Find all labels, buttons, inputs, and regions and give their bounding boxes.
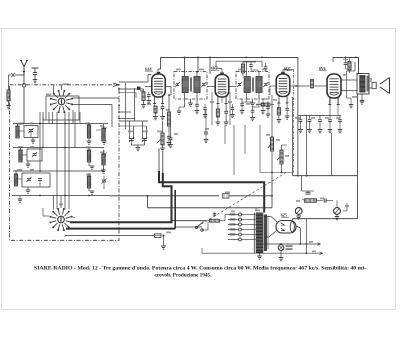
ground padders (136, 148, 141, 151)
wire mains bold C (70, 221, 208, 223)
wire S2 risers (54, 196, 66, 210)
resistor R3 grid leak (141, 89, 146, 108)
capacitor C24 (203, 104, 208, 118)
svg-text:6K7: 6K7 (211, 67, 218, 71)
wire screen rail (216, 61, 262, 72)
resistor R9 diode load (256, 103, 274, 106)
capacitor C12 (250, 107, 255, 121)
potentiometer RF gain (157, 121, 165, 151)
wire osc feed verticals (118, 83, 140, 129)
capacitor C9 (249, 62, 253, 70)
capacitor C25 (230, 104, 235, 118)
wire IF1 pri down (177, 99, 185, 114)
resistor R8 V3 cathode (277, 103, 282, 123)
wire S2 links (43, 208, 75, 218)
coil L2 antenna (19, 148, 22, 162)
wire mains bold A (159, 149, 264, 213)
svg-text:6Z5: 6Z5 (281, 214, 287, 218)
wire AVC links (243, 62, 258, 72)
coil L8 oscillator (101, 150, 106, 173)
IF1 trimmer right (201, 82, 206, 87)
capacitor C19 tone (204, 110, 209, 143)
resistor R7 AVC (241, 61, 244, 76)
ground L6 (89, 188, 94, 194)
label 6Z5 (281, 214, 289, 218)
label 6Q7 (284, 67, 292, 71)
padder capacitor P1 (129, 121, 134, 145)
trimmer C-L1 (18, 126, 39, 138)
wire rectifier leads (264, 217, 306, 254)
capacitor C26 (266, 101, 271, 117)
component dial lamp small (223, 194, 230, 199)
capacitor C5 (147, 92, 152, 104)
tube V5 rectifier 6Z5 (276, 221, 296, 234)
capacitor C6 cathode (160, 105, 165, 120)
spark-gap arrester (9, 73, 19, 77)
label 6A8 (145, 67, 153, 71)
trimmer C-L4 (96, 126, 107, 138)
wire mains bold B2 (174, 190, 176, 229)
pilot lamp (278, 243, 292, 261)
trimmer C-L6 (101, 176, 106, 189)
IF1 ground (188, 99, 193, 106)
wire T2 secondary (369, 81, 372, 88)
wire AF vertical 2 (307, 116, 332, 176)
IF1 bottom leads (185, 93, 198, 100)
wire V2 drops (212, 92, 230, 125)
resistor antenna leak (7, 75, 10, 105)
svg-text:crovolt. Produzione 1945.: crovolt. Produzione 1945. (155, 272, 213, 278)
wire cell rails (13, 110, 108, 172)
capacitor C20 electrolytic (295, 208, 302, 220)
trimmer C-L3 (16, 173, 50, 187)
caption line 2 (155, 272, 213, 278)
IF2 primary coil (244, 77, 250, 93)
IF1 core (190, 78, 193, 92)
capacitor C13 (261, 99, 266, 114)
IF2 trimmer right (263, 82, 268, 87)
coil L5 RF (87, 148, 90, 162)
speaker voice coil (372, 82, 376, 88)
wire heater run (202, 248, 322, 254)
tube V1 6A8 (152, 72, 166, 103)
snubber network V4 (343, 57, 351, 73)
coil L7 oscillator (102, 124, 105, 141)
filter choke field coil (302, 176, 317, 203)
switch mains on dial (195, 222, 208, 232)
capacitor C17 (328, 116, 333, 133)
capacitor C16 (318, 116, 323, 133)
wire IF1 sec down (195, 99, 200, 114)
capacitor C14 (298, 116, 303, 133)
band switch S2 (49, 208, 72, 231)
IF2 ground (250, 99, 255, 106)
wire S1 to top (54, 85, 62, 93)
wire V4 plate (341, 62, 357, 108)
wire B+ feed vertical (297, 57, 299, 175)
coil L3 antenna (14, 170, 17, 186)
tube V2 6K7 (215, 73, 229, 104)
ground L5 (89, 162, 94, 169)
fuse (155, 234, 166, 249)
IF1 primary coil (182, 77, 188, 93)
antenna (20, 61, 28, 77)
svg-text:6A8: 6A8 (145, 67, 152, 71)
wire heater loop (110, 176, 273, 208)
svg-text:6Q7: 6Q7 (284, 67, 291, 71)
value labels (smudges) (17, 69, 372, 253)
wire S1 loop (43, 96, 80, 120)
wire B+ main vertical (357, 94, 359, 219)
IF2 bottom leads (246, 93, 259, 100)
IF1 secondary coil (194, 77, 200, 93)
wire mains bold B (163, 152, 172, 222)
IF transformer T-IF2 shield (236, 72, 269, 100)
wire antenna lead (18, 75, 24, 85)
wire diode load (242, 99, 268, 107)
wire field box top (293, 175, 358, 177)
feedthrough node (22, 83, 26, 87)
ground L3 (26, 187, 31, 193)
IF1 top leads (184, 71, 198, 77)
resistor R6 V2 cathode (216, 104, 221, 126)
label 6V6 (319, 67, 327, 71)
mechanical link (dashed) (198, 173, 287, 227)
trimmer C-L5 (101, 150, 106, 163)
capacitor C15 (307, 116, 312, 133)
capacitor C18 (338, 116, 343, 133)
shield box coil unit (dashed) (10, 83, 120, 240)
potentiometer tone (277, 145, 287, 172)
wire coil to V1 grid (119, 75, 152, 99)
ground antenna leak (6, 106, 11, 109)
capacitor RF bypass (168, 121, 173, 148)
wire field box bottom (293, 218, 358, 220)
bypass row rail (298, 98, 341, 116)
capacitor C11 (240, 99, 245, 114)
coil L4 RF (87, 123, 90, 138)
capacitor C8 V2 (224, 104, 229, 126)
wire V2 side leads (207, 86, 236, 88)
IF2 core (252, 78, 255, 92)
wire V3 shielded grid (dash-dot) (283, 70, 294, 173)
IF2 top leads (246, 72, 259, 77)
tube V4 6V6 (327, 74, 341, 105)
output transformer T2 (357, 74, 369, 95)
wire rectifier top feed (291, 219, 293, 221)
ground L2 (26, 161, 31, 167)
ground T1 (257, 253, 262, 259)
coil L1 antenna (16, 126, 19, 138)
wire field taps (263, 243, 323, 255)
coil L6 RF (87, 173, 90, 188)
wire heater left (65, 235, 154, 237)
ground L1 (31, 138, 36, 144)
svg-text:SIARE RADIO - Mod. 12 - Tre ga: SIARE RADIO - Mod. 12 - Tre gamme d'onda… (34, 265, 366, 271)
capacitor C21 8uF (317, 198, 334, 202)
wire mains bold D (66, 221, 202, 228)
IF transformer T-IF1 shield (174, 72, 207, 100)
IF2 secondary coil (256, 77, 262, 93)
wire T2 bottom (360, 94, 365, 104)
resistor R5 screen (167, 94, 170, 131)
potentiometer volume (268, 95, 274, 176)
wire antenna to coils (18, 87, 25, 126)
wire S1 down bundle (40, 112, 80, 209)
wire mid drops (225, 125, 260, 175)
wire coil unit bottom rail (12, 195, 110, 203)
ground antenna cap (33, 80, 38, 83)
mains filter (208, 213, 228, 223)
resistor R10 V4 grid (295, 80, 327, 91)
tube V3 6Q7 (276, 72, 290, 103)
wire B+ bus right (333, 57, 359, 74)
speaker cone (380, 78, 390, 94)
wire det rail (260, 172, 294, 174)
capacitor C22 electrolytic (334, 201, 347, 220)
wire screen drop (167, 95, 172, 146)
IF2 trimmer left (237, 82, 242, 87)
band switch S1 (50, 90, 73, 113)
resistor R4 cathode (153, 105, 158, 120)
padder capacitor P2 (142, 121, 147, 145)
wire V1 side leads (145, 87, 171, 96)
wire V1 grid cap (158, 69, 161, 72)
capacitor antenna series (32, 68, 39, 79)
trimmer C-L2 (21, 149, 43, 161)
wire padder rail (119, 121, 148, 147)
capacitor C10 (264, 63, 268, 72)
wire V3 leads (270, 86, 296, 119)
IF1 trimmer left (175, 82, 180, 87)
label 6K7 (211, 67, 219, 71)
wire AF vertical 1 (292, 97, 294, 176)
caption line 1 (34, 265, 366, 271)
ground L4 (87, 138, 107, 144)
svg-text:6V6: 6V6 (319, 67, 326, 71)
primary taps (228, 213, 256, 241)
power transformer T1 (254, 208, 268, 254)
wire S1 right outputs (73, 98, 120, 127)
wire B+ bus (161, 57, 298, 75)
